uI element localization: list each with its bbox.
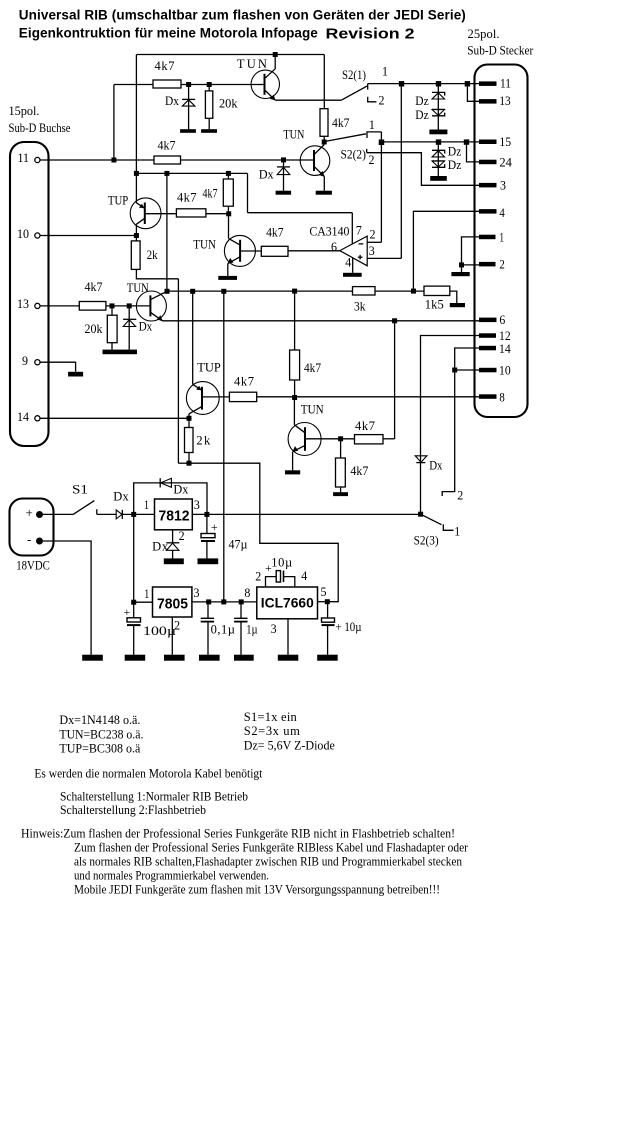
svg-text:4k7: 4k7 (266, 225, 284, 239)
wire op-amp pin4 lead (352, 258, 354, 273)
J2 pin 10 bar (479, 368, 497, 373)
svg-text:5: 5 (321, 585, 327, 599)
resistor R16 4k7 TUN7 base (355, 435, 384, 444)
junction node 7812 output / 47u (204, 512, 209, 517)
capacitor C6 10u output (322, 618, 335, 625)
svg-text:+ 10µ: + 10µ (336, 620, 362, 634)
ground bar 100u (125, 655, 146, 661)
svg-text:Dz: Dz (448, 158, 462, 172)
junction node 7805 input (131, 600, 136, 605)
capacitor C5 10u bridge (276, 571, 283, 582)
junction node pin13 row D3 (127, 303, 132, 308)
ground bar 1k5 (450, 303, 465, 307)
ground bar under TUN2 emitter (316, 191, 332, 195)
svg-text:10µ: 10µ (271, 556, 292, 570)
diode D10 Dx 7812 pin2 (166, 543, 179, 551)
capacitor C2 47u (201, 534, 215, 542)
transistor T3 TUP x145 (130, 198, 161, 236)
junction node ICL7660 pin5 / 10u (325, 599, 330, 604)
wire +5V output row (192, 601, 257, 603)
J2 pin 3 bar (479, 183, 497, 188)
ground bar 7805 pin2 (164, 655, 185, 661)
ground bar pins 1-2 of J2 (451, 272, 469, 276)
ground bar 7812 pin2 (164, 558, 184, 564)
svg-text:2: 2 (499, 258, 504, 272)
svg-text:1: 1 (499, 231, 504, 245)
junction node bus y173 x136 (134, 171, 139, 176)
svg-text:4k7: 4k7 (177, 191, 197, 205)
diode D8 Dx series S1 (116, 510, 122, 519)
svg-text:4: 4 (499, 206, 505, 220)
resistor R6 4k7 horizontal TUP1 base (176, 209, 206, 217)
IC U3 7805 box (153, 587, 192, 617)
J2 pin 2 bar (479, 262, 496, 267)
wire vertical x178 -12V (177, 279, 179, 463)
svg-text:Dz: Dz (448, 145, 462, 159)
svg-text:Dx: Dx (139, 320, 153, 334)
svg-text:Mobile JEDI Funkgeräte zum fla: Mobile JEDI Funkgeräte zum flashen mit 1… (74, 883, 440, 897)
svg-text:TUN: TUN (283, 127, 304, 141)
wire 4k7 bottom to S2(2) node (323, 136, 325, 142)
wire 7812 pin2 leads (172, 530, 174, 543)
switch S2(1) lever (341, 86, 367, 100)
wire op-amp pin3 output (367, 257, 401, 259)
wire TUP2 upper lead from +5 bus (192, 291, 194, 384)
capacitor C4 1u (234, 618, 247, 621)
J1 pin 9 circle (35, 360, 40, 365)
wire pin13 row to TUN5 base (106, 305, 150, 307)
svg-text:1µ: 1µ (246, 623, 257, 637)
junction node bus y173 R5 (226, 171, 231, 176)
svg-text:CA3140: CA3140 (309, 224, 349, 238)
svg-text:3: 3 (500, 179, 506, 193)
svg-text:4k7: 4k7 (85, 280, 103, 294)
resistor R10 20k (107, 315, 117, 343)
wire TUN3 collector lead (228, 214, 230, 239)
diode D9 Dx bypass over 7812 (160, 478, 171, 487)
ground bar under D1 (180, 129, 196, 133)
svg-text:und normales Programmierkabel: und normales Programmierkabel verwenden. (74, 869, 269, 883)
svg-text:15pol.: 15pol. (9, 104, 40, 118)
wire TUN1 emitter row to S2(1) (275, 99, 341, 101)
svg-text:6: 6 (331, 240, 337, 254)
capacitor C3 0,1u (201, 618, 214, 621)
junction node pin13 row 20k (110, 303, 115, 308)
wire pin2 node ground stub (461, 265, 463, 272)
wire pin9 ground stub (40, 362, 76, 372)
svg-text:TUN: TUN (301, 403, 324, 417)
svg-text:3: 3 (194, 498, 200, 512)
svg-text:25pol.: 25pol. (468, 27, 500, 41)
wire vertical x114 to pin11 row (113, 85, 115, 161)
wire pin15 row (381, 141, 479, 143)
U1 plus sign (358, 255, 363, 260)
wire pin10 down to S2(3) contact2 (442, 370, 455, 496)
wire ICL7660 output row (318, 601, 328, 603)
svg-text:0,1µ: 0,1µ (211, 623, 235, 637)
svg-text:4: 4 (301, 569, 308, 583)
svg-text:TUP: TUP (197, 360, 221, 374)
resistor R1 4k7 (153, 80, 181, 88)
J2 pin 1 bar (479, 235, 496, 240)
svg-text:18VDC: 18VDC (16, 559, 50, 573)
svg-text:2: 2 (369, 153, 375, 167)
junction node TUN7 base / R16 / R17 (338, 436, 343, 441)
wire R1 right to TUN1 base (181, 84, 265, 86)
wire R7 to op-amp input 6 (288, 250, 340, 252)
junction node pin10 row / TUP1 emitter (134, 233, 139, 238)
ground bar under R2 (201, 129, 217, 133)
J1 pin 13 circle (35, 303, 40, 308)
J2 pin 14 bar (479, 346, 496, 351)
junction node pin24 link (464, 139, 469, 144)
X1 plus terminal (36, 511, 43, 518)
wire 2k R8 top lead (135, 236, 137, 241)
op-amp U1 CA3140 triangle (340, 236, 367, 266)
wire pin4 of J2 (413, 211, 479, 291)
J2 pin 15 bar (479, 140, 497, 145)
transistor T5 TUN pin13 row (136, 291, 167, 321)
wire D1 lead (188, 85, 190, 130)
transistor T1 TUN top (251, 69, 279, 101)
svg-text:TUN: TUN (193, 238, 216, 252)
wire +5V bus y291 (167, 290, 353, 292)
wire S2(1) contact1 to pin11 of J2 (368, 83, 479, 85)
resistor R3 4k7 pin11 row (154, 156, 181, 164)
wire R17 leads (340, 439, 342, 458)
S2(2) contact 1 (367, 132, 381, 138)
svg-text:+: + (124, 605, 131, 619)
svg-text:ICL7660: ICL7660 (261, 595, 314, 611)
svg-text:Dz= 5,6V Z-Diode: Dz= 5,6V Z-Diode (244, 739, 335, 753)
wire 100u leads (133, 602, 135, 618)
transistor T6 TUP x202 (186, 382, 219, 419)
svg-text:10: 10 (499, 364, 511, 378)
transistor T4 TUN x240 (224, 235, 255, 266)
junction node +5 bus TUN5 collector (165, 289, 170, 294)
switch S2(2) lever (325, 134, 367, 142)
wire R16 to pin6 vertical (383, 438, 395, 440)
wire x247 down (247, 173, 249, 212)
diode D3 Dx pin13 row (123, 319, 136, 326)
S1 contact tick (96, 509, 98, 514)
svg-text:20k: 20k (85, 322, 104, 336)
wire 2k R15 leads (188, 418, 190, 427)
svg-text:S1=1x ein: S1=1x ein (244, 710, 298, 724)
svg-text:S2(1): S2(1) (342, 68, 366, 82)
ground bar wide under 20k and D3 (103, 350, 138, 355)
svg-text:8: 8 (244, 586, 250, 600)
zener Dz4 lower (432, 161, 445, 167)
wire op-amp pin7 vertical (351, 213, 353, 245)
svg-text:6: 6 (499, 313, 505, 327)
svg-text:2k: 2k (147, 248, 159, 262)
junction node pin13 link (465, 81, 470, 86)
wire y212 to op-amp pin7 (248, 212, 353, 214)
svg-text:24: 24 (499, 156, 512, 170)
J2 pin 12 bar (479, 333, 496, 338)
ground bar under Dz upper chain (429, 130, 447, 135)
svg-text:S1: S1 (72, 483, 88, 497)
svg-text:Dz: Dz (415, 94, 429, 108)
ground bar TUN7 emitter (285, 470, 300, 474)
wire link pin15 to pin24 (467, 142, 480, 162)
wire pin12 vertical to S2(3) (421, 336, 480, 515)
svg-text:1k5: 1k5 (425, 298, 444, 312)
wire TUN7 base row (305, 438, 355, 440)
svg-text:Eigenkontruktion für meine Mot: Eigenkontruktion für meine Motorola Info… (19, 26, 318, 41)
wire 7812 output +12V rail to S2(3) (192, 513, 420, 515)
svg-text:2: 2 (370, 228, 376, 242)
svg-text:4k7: 4k7 (158, 139, 176, 153)
wire +12V bus y173 (136, 172, 247, 174)
U1 minus sign (359, 243, 364, 245)
svg-text:TUP: TUP (108, 193, 128, 207)
svg-text:S2(3): S2(3) (414, 534, 439, 548)
wire pin13 row left (40, 305, 79, 307)
wire 10u output cap leads (327, 602, 329, 618)
ground bar op-amp pin4 (343, 273, 362, 277)
junction node pin8 row 4k7 chain (292, 395, 297, 400)
ground bar under D2 (276, 191, 292, 195)
zener Dz3 lower (432, 150, 445, 157)
svg-text:Schalterstellung 2:Flashbetrie: Schalterstellung 2:Flashbetrieb (60, 803, 206, 817)
wire bypass diode loop over 7812 (134, 483, 207, 515)
ground bar 0,1u (199, 655, 220, 661)
connector X1 18VDC outline (10, 499, 54, 556)
svg-text:Dx: Dx (259, 168, 275, 182)
svg-text:Revision 2: Revision 2 (326, 27, 415, 43)
svg-text:2: 2 (255, 570, 261, 584)
ground bar pin9 (68, 372, 83, 377)
wire pin11 row to TUN base (181, 159, 315, 161)
svg-text:Zum flashen der Professional S: Zum flashen der Professional Series Funk… (74, 841, 469, 855)
resistor R8 2k (131, 241, 140, 270)
svg-text:4k7: 4k7 (332, 116, 350, 130)
wire 20k R2 leads (208, 85, 210, 91)
svg-text:Hinweis:Zum flashen der Profes: Hinweis:Zum flashen der Professional Ser… (21, 827, 455, 841)
wire R6 to node (206, 213, 229, 215)
switch S1 lever (73, 501, 94, 515)
svg-text:10: 10 (17, 227, 29, 241)
diode D11 Dx above S2(3) (415, 456, 427, 463)
svg-text:13: 13 (499, 94, 510, 108)
wire 10u bridge pins 2-4 (266, 577, 277, 587)
resistor R12 1k5 (424, 286, 450, 295)
wire x178 corner to 2k node (178, 462, 189, 464)
wire pin14 row (40, 417, 189, 419)
IC U4 ICL7660 box (257, 587, 318, 619)
svg-text:Universal RIB (umschaltbar zum: Universal RIB (umschaltbar zum flashen v… (19, 8, 466, 23)
svg-text:2k: 2k (196, 434, 211, 448)
svg-text:TUN: TUN (237, 57, 267, 71)
svg-text:1: 1 (144, 498, 149, 512)
wire 2k R8 bottom L to -12V line (136, 269, 178, 278)
junction node 4k7/S2(2) lever (322, 140, 327, 145)
junction node pin11 row x114 (111, 158, 116, 163)
X1 minus terminal (36, 538, 43, 545)
svg-text:11: 11 (18, 151, 30, 165)
wire ICL7660 pin3 lead (287, 619, 289, 655)
junction node +5 row x224 (221, 599, 226, 604)
wire Dz upper chain lead (437, 84, 439, 130)
J2 pin 8 bar (479, 394, 497, 399)
junction node S2(3) common (418, 512, 423, 517)
wire pin6 row from TUN5 emitter (162, 320, 479, 322)
svg-text:47µ: 47µ (229, 538, 248, 552)
svg-text:S2=3x um: S2=3x um (244, 724, 300, 738)
junction node pin6 row x394 (392, 318, 397, 323)
wire S2(2) contact2 to pin3 (367, 153, 479, 186)
wire 47u leads (206, 514, 208, 533)
svg-text:2: 2 (457, 489, 463, 503)
resistor R14 4k7 TUP2 base (229, 392, 256, 401)
ground bar 47u (198, 558, 219, 564)
svg-text:S2(2): S2(2) (341, 148, 366, 162)
svg-text:1: 1 (454, 525, 460, 539)
S2(1) contact 2 (368, 97, 377, 102)
svg-text:8: 8 (499, 391, 504, 405)
junction node +5 bus TUP2 (190, 289, 195, 294)
junction node R1/20k (207, 82, 212, 87)
wire S1 to D8 (97, 513, 116, 515)
wire 20k R10 leads (111, 306, 113, 315)
S2(1) contact 1 (367, 84, 369, 90)
wire 4k7 chain x294 upper lead (294, 291, 296, 350)
wire top +12V rail (136, 54, 324, 56)
wire vertical x167 (166, 173, 168, 291)
junction node Dz upper / pin11 (436, 81, 441, 86)
svg-text:4k7: 4k7 (155, 59, 175, 73)
diode D1 Dx to ground (182, 99, 195, 106)
svg-text:+: + (26, 505, 33, 520)
junction node top rail / TUN1 collector (273, 52, 278, 57)
svg-text:4k7: 4k7 (350, 464, 368, 478)
wire pin10 row (455, 369, 479, 371)
junction node +5 bus 4k7 chain (292, 289, 297, 294)
wire 0,1u leads (207, 602, 209, 618)
svg-text:Dx: Dx (173, 483, 189, 497)
svg-text:7812: 7812 (159, 508, 190, 525)
wire 3k to 1k5 (375, 290, 424, 292)
J2 pin 11 bar (479, 81, 497, 86)
svg-text:Sub-D Stecker: Sub-D Stecker (467, 44, 534, 58)
zener Dz2 upper (432, 109, 445, 115)
wire TUN7 collector lead (293, 398, 295, 425)
ground bar 1u (234, 655, 254, 661)
junction node Dz lower / pin15 (436, 139, 441, 144)
S2(3) contact 1 (443, 524, 453, 530)
diode D2 Dx TUN2 base (277, 160, 290, 191)
transistor T2 TUN pin11 row (300, 142, 330, 191)
svg-text:14: 14 (499, 342, 511, 356)
svg-text:15: 15 (499, 135, 511, 149)
svg-text:4k7: 4k7 (304, 361, 321, 375)
wire 18V+ to S1 (43, 513, 73, 515)
svg-text:1: 1 (382, 65, 388, 79)
junction node R5/R6/TUN3 (226, 211, 231, 216)
wire 4k7 chain to node (294, 380, 296, 398)
J1 pin 10 circle (35, 233, 40, 238)
wire TUN3 base row to R7 (240, 250, 261, 252)
junction node bus / pin4 / 1k5 (411, 289, 416, 294)
svg-text:12: 12 (499, 329, 511, 343)
IC U2 7812 box (155, 499, 193, 530)
connector J2 25pol Sub-D Stecker outline (475, 65, 528, 418)
svg-text:Dx: Dx (113, 490, 129, 504)
junction node S2(2)-1 / pin15 (379, 140, 385, 146)
wire op-amp pin2 to S2(2) contact1 (367, 241, 381, 243)
wire -12V run to ICL7660 pin5 (189, 463, 338, 602)
svg-text:Dx: Dx (165, 94, 180, 108)
wire vertical x401 pin11 to op-amp output (400, 84, 402, 259)
junction node pin14 row / TUP2 / 2k (187, 416, 192, 421)
svg-text:4: 4 (345, 256, 352, 270)
connector J1 15pol Sub-D Buchse outline (10, 142, 49, 446)
svg-text:Dx: Dx (429, 459, 443, 473)
svg-text:Schalterstellung 1:Normaler RI: Schalterstellung 1:Normaler RIB Betrieb (60, 790, 248, 804)
junction node pin10 link (452, 368, 457, 373)
svg-text:11: 11 (500, 77, 511, 91)
wire 1k5 right to ground (450, 291, 457, 303)
resistor R15 2k (185, 428, 194, 453)
ground bar ICL7660 pin3 (278, 655, 299, 661)
junction node D8 / 7812 input (131, 512, 136, 517)
resistor R13 4k7 vertical x294 (290, 350, 300, 380)
wire TUN1 collector lead (274, 55, 276, 70)
wire D8 to 7812 input node (123, 513, 155, 515)
svg-text:4k7: 4k7 (203, 187, 218, 201)
svg-text:7805: 7805 (157, 596, 188, 613)
wire R5 leads (227, 173, 229, 179)
wire +5V vertical x224 (223, 291, 225, 602)
wire 18V- to ground (43, 541, 91, 655)
wire R1 left lead (114, 84, 153, 86)
svg-text:3: 3 (369, 244, 375, 258)
svg-text:Dx=1N4148 o.ä.: Dx=1N4148 o.ä. (59, 713, 140, 727)
svg-text:Dx: Dx (152, 540, 169, 554)
svg-text:+: + (211, 520, 218, 534)
resistor R5 4k7 vertical x228 (223, 179, 233, 206)
junction node pin1/pin2 link (459, 262, 464, 267)
ground bar under TUN3 emitter (218, 276, 237, 280)
resistor R4 4k7 vertical x324 (320, 109, 328, 137)
wire pin1 to pin2 link (462, 237, 480, 265)
svg-text:3: 3 (271, 622, 277, 636)
ground bar 10u output (317, 655, 338, 661)
wire 7805 pin2 lead (171, 617, 173, 655)
wire TUN3 emitter lead (227, 264, 229, 276)
wire TUP2 base row to R14 (202, 396, 229, 398)
J1 pin 14 circle (35, 416, 40, 421)
svg-text:100µ: 100µ (143, 624, 176, 638)
svg-text:9: 9 (22, 354, 28, 368)
transistor T7 TUN x304 (288, 423, 321, 456)
J2 pin 4 bar (479, 209, 497, 214)
wire pin8 row (257, 396, 479, 398)
S2(2) contact 2 tick (366, 149, 368, 153)
svg-text:3: 3 (194, 586, 200, 600)
resistor R2 20k (205, 91, 212, 118)
svg-text:3k: 3k (354, 300, 366, 314)
wire 1u leads (240, 602, 242, 618)
wire pin10 row (40, 235, 136, 237)
svg-text:2: 2 (379, 93, 385, 107)
svg-text:1: 1 (369, 118, 375, 132)
junction node 2k / -12V line (187, 461, 192, 466)
wire Dz lower chain lead (437, 142, 439, 176)
wire vertical x394 pin6 (394, 321, 396, 439)
